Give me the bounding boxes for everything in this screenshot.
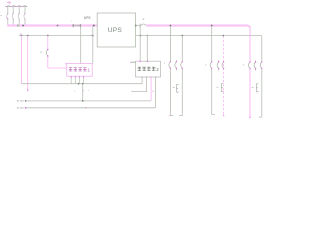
junction dot on output bus (feeder group 1 tap) xyxy=(170,25,172,27)
svg-text:UPS: UPS xyxy=(108,27,123,34)
breaker column QF5-QF8 (arcs on the drops) xyxy=(7,14,25,20)
junction dot N line x27.7 xyxy=(27,35,29,37)
wire: drop from measurement line to 220V line A xyxy=(82,84,84,101)
svg-text:AC 220V: AC 220V xyxy=(17,100,25,103)
wire: magenta drop x27.7 (open ended) xyxy=(27,36,29,91)
pink dot at stub end xyxy=(130,62,131,63)
wire: G2 left pole from output bus xyxy=(212,27,215,115)
pink smear on meter M2 top edge xyxy=(136,60,141,62)
junction dot on output bus (feeder group 2 tap) xyxy=(211,25,213,27)
breaker QF-G3 (3 pole arcs) xyxy=(248,62,261,68)
terminal dot line B left end (magenta) xyxy=(25,107,27,109)
svg-text:-48: -48 xyxy=(6,1,11,5)
junction dot N line x147.3 xyxy=(147,35,148,36)
wire: drop from N line to meter M2 pin (x147.3) xyxy=(146,36,148,62)
wire: G3 mid pole xyxy=(255,60,257,71)
wire: M2 pin1 down to measurement line xyxy=(141,77,143,84)
junction dot N line x47.8 xyxy=(47,35,49,37)
meter M1 label (CJK glyphs simulated) xyxy=(69,67,87,71)
terminal dots of breaker row QF1-QF4 xyxy=(6,6,27,7)
wire: G3 pink pole from output bus corner xyxy=(249,28,251,118)
wire: vertical drops from feeder bus down to AC bus xyxy=(8,7,25,26)
wire: corner of output bus turning down xyxy=(248,26,251,29)
wire: M2 pin3 pink drop to line A xyxy=(150,77,152,101)
wire: G3 right pole from N line corner xyxy=(259,37,262,117)
wire: 220V line B xyxy=(25,107,155,109)
junction dot N line x92.8 xyxy=(92,35,94,37)
wire: G2 mid pole xyxy=(218,60,220,71)
wire: measurement line (meters common) xyxy=(21,83,142,85)
pink tick above N line start xyxy=(20,33,22,35)
wire: G2 dash-dot pink pole xyxy=(223,36,225,115)
pink corner tick at meter M1 top-left xyxy=(65,63,66,65)
magenta speck at N line end xyxy=(91,35,92,36)
junction dot N line x21.4 xyxy=(21,35,23,37)
pin dot meter M2 top x147.3 xyxy=(147,61,149,63)
terminal dots of breaker QF-G2 xyxy=(211,61,224,69)
breaker ~1 (UPS output), tick and arc xyxy=(139,24,141,28)
wire: magenta drop x21.4 to measurement line xyxy=(20,36,22,84)
wire: G1 left pole from output bus xyxy=(170,27,173,116)
meter M2 box (power meter 2) xyxy=(136,61,161,77)
pin dots of meter M2 bottom xyxy=(141,77,156,78)
breaker QF9 UPS-input (inline on AC bus) xyxy=(73,25,81,27)
junction dot on AC bus (x23) xyxy=(22,25,24,27)
junction dot measurement line x82.7 xyxy=(82,83,84,85)
wire: N line (gray, right of UPS) with corner down xyxy=(136,36,262,37)
wire: AC bus (pink) from feeders to UPS input xyxy=(7,24,97,26)
breaker row QF1-QF4 (inline arcs on feeder bus) xyxy=(7,5,27,8)
junction dot line A x82.7 xyxy=(82,100,84,102)
wire: G1 mid pole xyxy=(175,60,177,71)
SPD G2 symbol xyxy=(221,84,223,92)
terminal dots of breaker QF-G3 xyxy=(249,61,262,69)
G3 foot pink tick (pink pole end) xyxy=(249,117,251,119)
G3 foot pink tick (gray pole end) xyxy=(259,117,260,118)
breaker on pink drop (arc) xyxy=(46,50,47,57)
wire: top-left horizontal feeder bus xyxy=(5,6,28,8)
G1 foot pink ticks xyxy=(169,115,170,116)
wire: M2 pin4 drop to line B xyxy=(155,77,157,108)
svg-text:AC 220V: AC 220V xyxy=(17,107,25,110)
SPD G1 symbol xyxy=(177,84,179,92)
svg-text:≈t: ≈t xyxy=(40,51,42,54)
UPS unit U1 (box) xyxy=(97,13,135,47)
wire: meter M1 bottom pins to measurement line xyxy=(71,76,83,84)
terminal dots of breaker QF-G1 xyxy=(170,61,183,69)
pink tick near M2 pin3 corner xyxy=(152,91,153,92)
junction dot measurement line x78.5 xyxy=(78,83,80,85)
svg-text:UPS: UPS xyxy=(84,16,91,20)
G2 foot pink ticks xyxy=(214,114,215,115)
junction dot: UPS output at right edge xyxy=(135,25,137,27)
pin dots of meter M1 xyxy=(71,76,85,77)
wire: 220V line A xyxy=(25,100,151,102)
junction dot N line x182.3 xyxy=(181,35,183,37)
wire: UPS output bus (pink) xyxy=(146,24,247,26)
junction dot on AC bus (x57.5) xyxy=(57,25,59,27)
breaker QF-G2 (3 pole arcs) xyxy=(210,62,224,68)
terminal dots of breaker column QF5-QF8 xyxy=(7,13,25,20)
wire: M2 pin2 corner left xyxy=(131,77,146,92)
pin dot meter M2 top x140.2 xyxy=(139,61,141,63)
SPD G3 symbol xyxy=(256,84,258,92)
terminal dots of breaker on pink drop xyxy=(47,49,49,51)
terminal dot line A left end xyxy=(25,100,27,102)
junction dot N line x224.1 xyxy=(223,35,225,37)
junction dot: AC bus at UPS left edge xyxy=(93,25,95,27)
wire: pink drop x47.8 into meter M1 left side xyxy=(48,36,67,69)
wire: drop from AC bus junction to meter M1 top-right (x92.8) xyxy=(92,27,94,64)
junction dot N line x140.4 xyxy=(140,35,142,37)
wire: drop from UPS output to meter M2 pin (x140.2) xyxy=(139,26,141,62)
wire: UPS output stub to breaker ~1 xyxy=(136,25,141,27)
wire: gray overlay segment on AC bus xyxy=(17,24,19,26)
meter M2 label (CJK glyphs simulated) xyxy=(138,67,156,71)
wire: drop from AC bus to meter M1 pin (x80.7) xyxy=(80,27,82,64)
meter M1 box (power meter 1) xyxy=(67,64,92,77)
small dot on line B x85.7 xyxy=(85,107,86,108)
wire: N line (gray, left of UPS) xyxy=(19,35,93,37)
breaker QF-G1 (3 pole arcs) xyxy=(169,62,183,68)
wire: G1 right pole from N line xyxy=(180,36,183,116)
stub wire into meter M2 left side xyxy=(131,61,136,63)
pink tip of drop x27.7 xyxy=(27,89,29,91)
